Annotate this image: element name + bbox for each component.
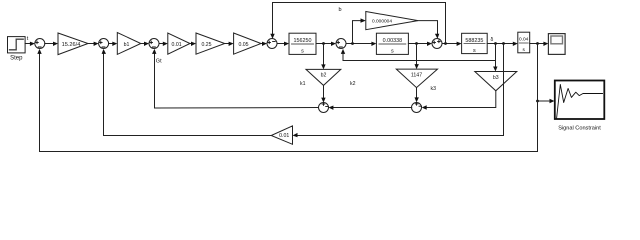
wire tap to Signal Constraint <box>536 44 554 104</box>
wire TF1 to sum S5 with junction <box>316 42 336 46</box>
signal constraint block <box>555 81 605 132</box>
transfer function TF3 588235/s <box>462 33 488 54</box>
wire Gb to sum S6 top <box>418 21 439 39</box>
wire S6 to TF3 with junction <box>442 42 462 46</box>
sum S4 <box>267 39 277 49</box>
wire junction down to gain 1147 <box>415 44 419 70</box>
svg-text:15.26/4: 15.26/4 <box>62 42 81 48</box>
svg-text:0.25: 0.25 <box>201 42 211 48</box>
svg-text:k3: k3 <box>431 86 437 92</box>
wire 1147 to sum S8 <box>415 88 419 103</box>
sum S7 <box>319 103 329 113</box>
gain G1 15.26/4 <box>58 33 88 55</box>
svg-text:s: s <box>391 49 394 55</box>
sum S8 <box>412 103 422 113</box>
svg-text:156250: 156250 <box>294 38 312 44</box>
svg-text:δ: δ <box>491 37 494 43</box>
wire Step to sum S1 <box>25 42 35 46</box>
gain b3 <box>475 72 517 91</box>
gain G5 0.05 <box>234 33 261 54</box>
wire TF2 to sum S6 with junction <box>408 42 432 46</box>
svg-text:0.04: 0.04 <box>519 37 529 43</box>
svg-text:1147: 1147 <box>411 72 422 78</box>
sum S3 <box>149 39 159 49</box>
bottom gain 0.01 <box>271 126 292 144</box>
svg-text:s: s <box>301 49 304 55</box>
svg-text:s: s <box>473 48 476 54</box>
scope block <box>548 34 565 55</box>
gain Gb 0.000004 <box>366 12 418 30</box>
feedback wire b top <box>270 3 445 44</box>
svg-text:b: b <box>339 7 342 13</box>
wire S5 to TF2 with junction <box>346 42 376 46</box>
transfer function TF1 156250/s <box>289 33 316 54</box>
svg-text:b2: b2 <box>321 73 327 79</box>
svg-text:0.000004: 0.000004 <box>372 18 392 24</box>
wire G3 to gain G4 <box>190 42 196 46</box>
wire b2 to sum S7 <box>321 85 325 102</box>
wire 0.01 to sum S2 bottom <box>102 49 272 136</box>
svg-text:0.01: 0.01 <box>172 42 182 48</box>
outer feedback wire to sum S1 <box>37 49 537 152</box>
wire G1 to sum S2 <box>88 42 99 46</box>
wire S4 to TF1 <box>277 42 289 46</box>
svg-text:Step: Step <box>10 56 23 62</box>
svg-text:588235: 588235 <box>465 38 483 44</box>
wire junction down to gain b2 <box>321 44 325 70</box>
sum S5 <box>336 39 346 49</box>
svg-text:k1: k1 <box>300 81 306 87</box>
wire S2 to gain b1 <box>109 42 118 46</box>
svg-text:Gt: Gt <box>156 59 162 65</box>
wire S8 to S7 <box>328 106 411 110</box>
gain G2 b1 <box>117 33 141 55</box>
svg-text:Signal Constraint: Signal Constraint <box>558 126 601 132</box>
svg-text:0.00338: 0.00338 <box>383 38 403 44</box>
wire TF4 to Scope with junction <box>530 42 549 46</box>
wire TF3 to TF4 with junctions <box>487 42 518 46</box>
sum S1 <box>35 39 45 49</box>
wire junction down to gain b3 <box>493 44 497 72</box>
transfer function TF2 0.00338/s <box>376 33 408 54</box>
sum S2 <box>99 39 109 49</box>
wire S3 to gain G3 <box>159 42 168 46</box>
wire b3 to sum S8 <box>422 91 496 110</box>
gain G4 0.25 <box>196 33 225 54</box>
transfer function TF4 0.04/s <box>518 32 530 53</box>
svg-text:b1: b1 <box>124 42 130 48</box>
wire b1 to sum S3 <box>141 42 149 46</box>
svg-text:0.01: 0.01 <box>279 133 289 139</box>
svg-text:k2: k2 <box>350 81 356 87</box>
step source Step <box>8 37 26 62</box>
sum S6 <box>432 39 442 49</box>
wire junction up to gain Gb 0.000004 <box>353 18 366 43</box>
feedback wire to sum S5 bottom <box>341 49 496 61</box>
svg-text:b3: b3 <box>493 75 499 81</box>
wire G5 to sum S4 <box>261 42 267 46</box>
wire S1 to gain G1 <box>45 42 58 46</box>
wire S7 to sum S3 bottom <box>152 49 318 108</box>
svg-text:0.05: 0.05 <box>238 42 248 48</box>
wire G4 to gain G5 <box>225 42 234 46</box>
feedback wire down to bottom gain 0.01 <box>293 44 504 138</box>
gain b2 <box>306 69 341 85</box>
gain G3 0.01 <box>168 33 190 54</box>
gain 1147 <box>396 69 437 88</box>
